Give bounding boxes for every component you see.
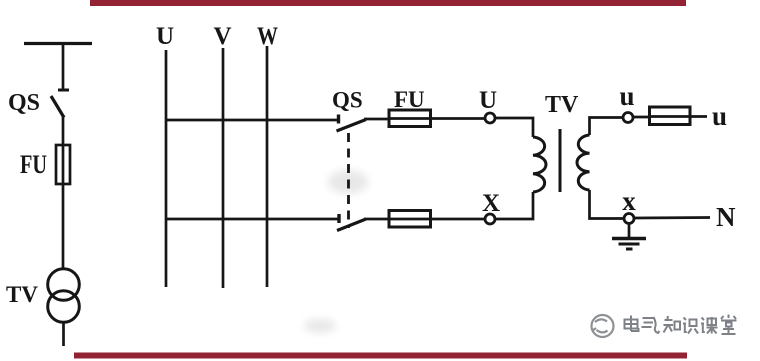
faint smudge mid: [328, 170, 368, 194]
svg-text:QS: QS: [332, 88, 363, 113]
wire X terminal to bottom fuse: [431, 218, 485, 221]
top switch fixed contact tick: [337, 115, 340, 124]
知: [664, 316, 681, 333]
transformer TV2 core: [559, 129, 562, 192]
svg-text:W: W: [257, 23, 278, 50]
ground bar 2: [619, 243, 640, 246]
svg-text:TV: TV: [545, 92, 579, 118]
phase line U: [165, 50, 168, 287]
watermark text 电气知识课堂: [625, 315, 737, 335]
phase line W: [266, 46, 269, 287]
faint smudge bottom-left of watermark: [304, 319, 336, 333]
fuse FU4 secondary body: [650, 107, 691, 125]
堂: [721, 315, 737, 335]
气: [642, 317, 660, 333]
svg-text:u: u: [712, 101, 727, 131]
terminal U circle: [485, 113, 495, 123]
wire x terminal to N: [634, 216, 710, 219]
svg-text:V: V: [213, 23, 231, 50]
watermark logo icon: [592, 315, 614, 337]
bottom feed wire: [166, 218, 338, 221]
svg-text:x: x: [622, 186, 636, 216]
secondary winding of TV2: [577, 135, 590, 190]
transformer TV1 circle lower: [48, 291, 80, 323]
wire u terminal to secondary fuse: [633, 116, 650, 119]
svg-text:u: u: [619, 81, 634, 111]
识: [683, 318, 698, 334]
disconnector QS1 blade: [51, 96, 64, 118]
课: [701, 317, 718, 334]
transformer TV1 circle upper: [48, 269, 80, 301]
ground bar 3: [626, 248, 633, 251]
svg-text:U: U: [156, 23, 174, 50]
wire through top fuse to U terminal: [390, 117, 485, 120]
fuse FU1 body: [56, 145, 70, 184]
wire stub below TV1: [62, 323, 65, 347]
wire through secondary fuse: [650, 115, 707, 118]
fuse FU3 bottom body: [389, 211, 431, 228]
terminal x circle: [624, 214, 634, 224]
left busbar: [24, 42, 92, 45]
bottom red divider bar: [74, 353, 687, 359]
wire busbar to switch: [62, 44, 65, 90]
wire U terminal to primary top corner: [495, 118, 533, 137]
disconnector QS2 top blade: [337, 120, 367, 132]
svg-text:X: X: [482, 190, 500, 217]
terminal X circle: [485, 214, 495, 224]
bottom switch fixed contact tick: [337, 214, 340, 223]
svg-text:N: N: [716, 202, 736, 232]
fuse FU2 top body: [389, 110, 431, 127]
phase line V: [222, 48, 225, 288]
wire top blade to fuse: [364, 118, 390, 121]
电: [625, 316, 639, 332]
terminal u circle: [623, 113, 633, 123]
wire primary bottom corner to X terminal: [495, 192, 533, 219]
svg-text:QS: QS: [8, 90, 40, 116]
ground bar 1: [612, 237, 646, 240]
wire secondary bottom corner to x terminal: [590, 190, 625, 219]
primary winding of TV2: [533, 137, 546, 192]
top feed wire: [166, 119, 338, 122]
switch fixed contact tick: [58, 89, 69, 92]
svg-text:FU: FU: [394, 87, 425, 112]
top red divider bar: [90, 0, 686, 6]
wire through bottom fuse to blade: [364, 218, 431, 221]
wire secondary top corner to u terminal: [590, 118, 624, 136]
QS2 linkage dashed line: [347, 133, 350, 228]
svg-text:FU: FU: [20, 150, 47, 179]
svg-text:TV: TV: [6, 282, 38, 307]
ground lead: [628, 224, 631, 238]
wire blade to fuse and through fuse to TV: [62, 116, 65, 269]
disconnector QS2 bottom blade: [337, 219, 366, 231]
svg-text:U: U: [479, 87, 497, 114]
